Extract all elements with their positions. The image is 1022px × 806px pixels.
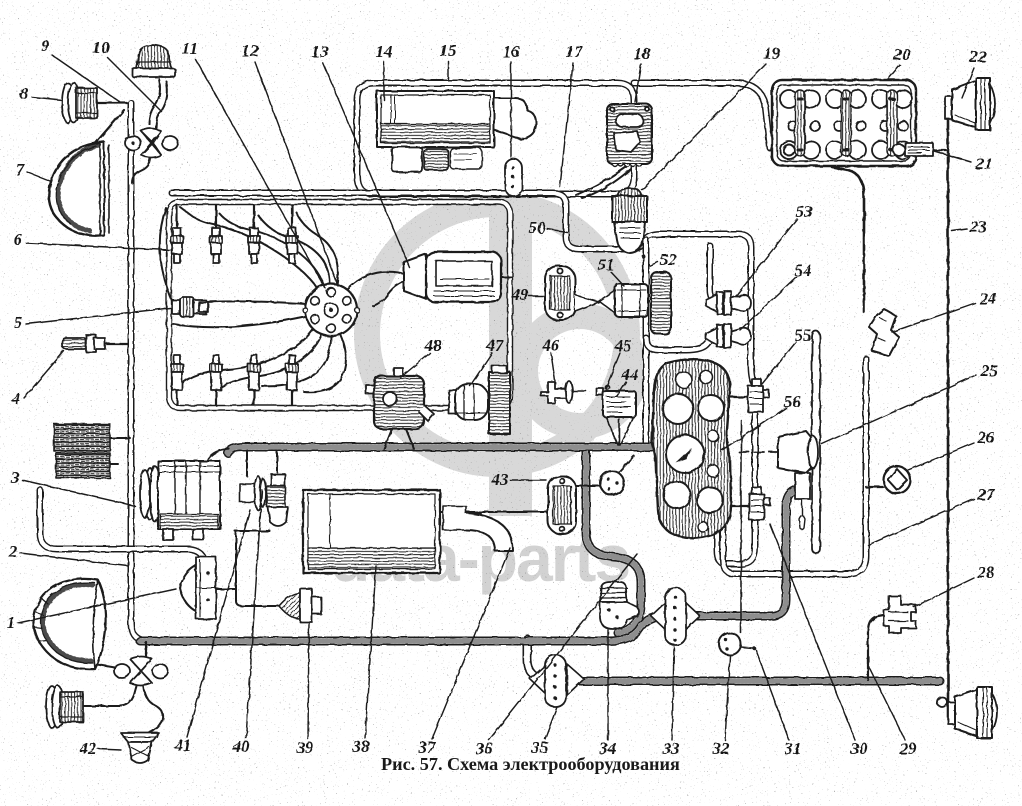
switch 46 bbox=[541, 381, 586, 403]
label 11 bbox=[182, 39, 325, 288]
svg-text:55: 55 bbox=[795, 326, 813, 345]
svg-text:12: 12 bbox=[242, 41, 260, 60]
label 39 bbox=[296, 622, 315, 757]
label 7 bbox=[16, 160, 50, 181]
svg-text:22: 22 bbox=[969, 47, 988, 66]
svg-text:29: 29 bbox=[899, 739, 918, 758]
svg-text:11: 11 bbox=[182, 39, 198, 58]
distributor 11 bbox=[303, 284, 360, 336]
label 1 bbox=[7, 589, 176, 632]
svg-text:Рис. 57. Схема электрооборудов: Рис. 57. Схема электрооборудования bbox=[381, 754, 680, 774]
heater 14-15 bbox=[377, 91, 536, 172]
motor 47 bbox=[449, 384, 488, 420]
wire 43 to lamp34 bbox=[576, 485, 601, 487]
lamp 22 bbox=[945, 78, 995, 130]
label 56 bbox=[722, 392, 801, 450]
wire 38 to 43 bbox=[440, 511, 548, 513]
svg-text:15: 15 bbox=[440, 41, 458, 60]
svg-text:10: 10 bbox=[93, 38, 111, 57]
lamp 19 bbox=[612, 188, 647, 253]
road drop at 527 bbox=[527, 639, 548, 680]
wire dashed steering axis bbox=[739, 451, 810, 453]
item 51 bbox=[599, 284, 648, 317]
label 50 bbox=[529, 218, 568, 237]
wire small circle bottom right bbox=[937, 697, 947, 707]
label 12 bbox=[242, 41, 339, 286]
wire plug stubs bottom row bbox=[176, 390, 178, 405]
svg-text:21: 21 bbox=[975, 154, 993, 173]
wire 40 columns bbox=[246, 451, 248, 476]
svg-text:19: 19 bbox=[764, 44, 782, 63]
svg-text:46: 46 bbox=[542, 336, 561, 355]
label 24 bbox=[892, 289, 997, 332]
wire generator to road bbox=[208, 449, 229, 459]
label 52 bbox=[649, 250, 677, 269]
spark plugs row 1 bbox=[171, 228, 298, 263]
bracket 9 bbox=[125, 129, 178, 158]
label 9 bbox=[41, 36, 120, 102]
svg-text:41: 41 bbox=[174, 736, 192, 755]
svg-text:48: 48 bbox=[424, 336, 443, 355]
wire filter loop pair bbox=[40, 490, 205, 561]
svg-text:13: 13 bbox=[312, 42, 330, 61]
switch 41a bbox=[267, 474, 288, 526]
label 31 bbox=[756, 650, 802, 758]
label 54 bbox=[740, 261, 812, 330]
svg-text:28: 28 bbox=[977, 563, 996, 582]
headlamp 7 bbox=[49, 142, 109, 236]
label 13 bbox=[312, 42, 411, 268]
label 21 bbox=[934, 151, 993, 173]
bracket bottom bbox=[114, 657, 168, 686]
label 26 bbox=[908, 428, 995, 470]
label 22 bbox=[962, 47, 987, 98]
svg-text:43: 43 bbox=[491, 470, 510, 489]
wire sensor 5 bbox=[160, 208, 173, 303]
tail lamp bbox=[46, 686, 83, 728]
label 4 bbox=[11, 351, 64, 408]
label 30 bbox=[770, 524, 868, 758]
label 14 bbox=[376, 42, 393, 100]
connector 21 bbox=[893, 143, 933, 156]
label 25 bbox=[822, 361, 998, 444]
wire lamp8 stub bbox=[97, 102, 128, 104]
svg-text:44: 44 bbox=[621, 365, 639, 384]
label 29 bbox=[869, 667, 917, 758]
wire 48 tassels bbox=[384, 429, 392, 449]
label 27 bbox=[868, 485, 996, 545]
label 23 bbox=[952, 217, 987, 236]
label 34 bbox=[599, 630, 617, 758]
plug 53 bbox=[706, 291, 751, 315]
label 2 bbox=[8, 542, 128, 566]
item 52 bbox=[641, 254, 671, 334]
wire 50 long pair bbox=[172, 193, 754, 383]
wire taillamp to bracket bbox=[83, 684, 137, 706]
svg-text:24: 24 bbox=[979, 289, 997, 308]
svg-text:8: 8 bbox=[20, 84, 29, 103]
svg-text:3: 3 bbox=[10, 468, 20, 487]
generator 2 bbox=[140, 461, 220, 540]
label 10 bbox=[93, 38, 163, 112]
connector 28 bbox=[884, 596, 916, 633]
road generator to panel bbox=[228, 447, 652, 453]
wire bottom bracket to road bbox=[145, 642, 147, 656]
funnel 42 bbox=[121, 733, 159, 763]
relay 18 bbox=[607, 104, 652, 167]
wire trunk left pair bbox=[131, 103, 149, 641]
wire coil to loop edge bbox=[501, 276, 512, 278]
wire 26 stub bbox=[866, 486, 883, 488]
svg-text:49: 49 bbox=[511, 285, 530, 304]
item 24 bbox=[869, 309, 899, 356]
wire 32 pull bbox=[740, 420, 742, 633]
svg-text:4: 4 bbox=[11, 389, 21, 408]
road steering to 33 bbox=[700, 490, 795, 616]
svg-text:50: 50 bbox=[529, 218, 547, 237]
switch 26 bbox=[884, 467, 911, 494]
svg-text:42: 42 bbox=[79, 739, 98, 758]
svg-text:26: 26 bbox=[977, 428, 996, 447]
svg-text:39: 39 bbox=[296, 738, 315, 757]
label 38 bbox=[352, 566, 377, 756]
svg-text:32: 32 bbox=[712, 739, 731, 758]
svg-text:17: 17 bbox=[566, 42, 585, 61]
label 40 bbox=[232, 490, 263, 756]
wire bracket to funnel 42 bbox=[143, 681, 163, 733]
spark plugs row 2 bbox=[171, 355, 298, 390]
watermark logo stem bar bbox=[489, 203, 532, 516]
svg-text:25: 25 bbox=[980, 361, 999, 380]
wire plug55 drop pair bbox=[717, 414, 755, 564]
lamp 8 bbox=[62, 83, 97, 123]
label 49 bbox=[511, 285, 545, 304]
label 47 bbox=[470, 336, 505, 386]
watermark logo small ring bbox=[525, 316, 635, 426]
label 44 bbox=[617, 365, 639, 396]
wire 28 stub bbox=[868, 614, 889, 680]
wire heater loop 15 bbox=[357, 83, 634, 194]
label 53 bbox=[736, 202, 813, 296]
wire panel to plug55 bbox=[731, 396, 748, 398]
label 55 bbox=[762, 326, 812, 384]
switch 32 bbox=[719, 633, 741, 655]
label 45 bbox=[606, 336, 632, 388]
svg-text:52: 52 bbox=[660, 250, 678, 269]
road bottom long bbox=[544, 677, 940, 686]
wire 40 bottom run bbox=[235, 530, 270, 532]
wire panel drop pair bbox=[643, 240, 650, 447]
label 3 bbox=[10, 468, 135, 506]
wire lamp22 right vertical bbox=[947, 120, 950, 719]
svg-text:53: 53 bbox=[796, 202, 814, 221]
oval 16 bbox=[505, 159, 522, 196]
label 51 bbox=[598, 255, 625, 286]
svg-text:1: 1 bbox=[7, 613, 16, 632]
label 42 bbox=[79, 739, 122, 758]
svg-text:45: 45 bbox=[614, 336, 633, 355]
svg-text:6: 6 bbox=[14, 230, 23, 249]
svg-text:31: 31 bbox=[784, 739, 802, 758]
road S drop center bbox=[586, 450, 641, 633]
svg-text:2: 2 bbox=[8, 542, 18, 561]
instrument panel 56 bbox=[652, 359, 731, 538]
road main bottom bbox=[140, 616, 700, 641]
label 36 bbox=[475, 554, 638, 758]
svg-text:18: 18 bbox=[634, 44, 652, 63]
wire parking lamp S bbox=[149, 79, 160, 124]
wire top pair to fuse block bbox=[634, 83, 770, 148]
label 32 bbox=[712, 656, 731, 758]
wire dome lamp stub bbox=[618, 456, 634, 473]
wire bracket to trunk bbox=[132, 157, 150, 183]
svg-text:51: 51 bbox=[598, 255, 615, 274]
switch 40 bbox=[240, 476, 266, 510]
label 46 bbox=[542, 336, 561, 381]
headlamp 1 bbox=[33, 579, 106, 669]
plug 54 bbox=[706, 324, 751, 348]
heater plug 43 bbox=[548, 476, 576, 534]
svg-text:20: 20 bbox=[893, 45, 912, 64]
fuse 4 bbox=[62, 335, 105, 352]
horn relay cap bbox=[180, 557, 216, 619]
svg-text:38: 38 bbox=[352, 737, 371, 756]
label 28 bbox=[914, 563, 995, 607]
svg-text:16: 16 bbox=[503, 42, 521, 61]
label 17 bbox=[560, 42, 584, 187]
wire 24 to fuse block bbox=[832, 167, 864, 312]
svg-text:30: 30 bbox=[850, 739, 869, 758]
wire coil nose lead bbox=[373, 279, 411, 306]
label 48 bbox=[400, 336, 442, 378]
filter 3 bbox=[54, 424, 110, 478]
lower plug 30 bbox=[749, 487, 770, 520]
label 37 bbox=[418, 548, 511, 757]
svg-text:14: 14 bbox=[376, 42, 393, 61]
wire fuse 4 stub bbox=[105, 343, 128, 345]
ignition coil 13 bbox=[404, 252, 501, 302]
wire drop to plug 53 bbox=[710, 246, 715, 301]
svg-text:27: 27 bbox=[977, 485, 997, 504]
label 18 bbox=[634, 44, 652, 102]
sensor 35 bbox=[530, 655, 584, 707]
label 41 bbox=[174, 510, 251, 755]
lamp 29 bbox=[948, 687, 997, 738]
watermark logo big ring bbox=[330, 203, 635, 595]
label 15 bbox=[440, 41, 458, 79]
svg-text:9: 9 bbox=[41, 36, 50, 55]
regulator 49 bbox=[545, 266, 599, 320]
regulator 48 bbox=[366, 368, 434, 429]
heater box 38 bbox=[303, 490, 513, 573]
relay 44 bbox=[596, 385, 636, 445]
wire to plugs 53-54 pair bbox=[646, 338, 712, 350]
steering column 25 bbox=[778, 331, 820, 553]
label 35 bbox=[531, 707, 558, 757]
wire dist leads bbox=[180, 207, 318, 289]
wire headlamp1 to bracket bbox=[82, 662, 118, 668]
wire relay 18 drop bbox=[576, 167, 626, 195]
dome lamp 34c bbox=[600, 471, 624, 495]
resistor 47b bbox=[489, 366, 510, 434]
svg-text:5: 5 bbox=[14, 313, 23, 332]
lamp 34 bbox=[600, 582, 639, 629]
label 5 bbox=[14, 308, 170, 332]
svg-text:54: 54 bbox=[795, 261, 812, 280]
label 16 bbox=[503, 42, 521, 157]
sensor 5 bbox=[172, 297, 208, 317]
wire 21 stub bbox=[934, 149, 946, 151]
svg-text:23: 23 bbox=[969, 217, 988, 236]
svg-text:47: 47 bbox=[486, 336, 506, 355]
label 19 bbox=[642, 44, 781, 190]
label 6 bbox=[14, 230, 170, 250]
sensor 39 bbox=[279, 589, 321, 622]
label 43 bbox=[491, 470, 547, 489]
plug 55 bbox=[748, 379, 769, 412]
lamp 10 parking bbox=[132, 45, 175, 77]
wire horn to 39 bbox=[214, 588, 236, 590]
wire filter stubs bbox=[110, 437, 130, 439]
label 20 bbox=[888, 45, 911, 79]
wire headlamp7 diagonal bbox=[86, 110, 124, 154]
svg-text:40: 40 bbox=[232, 737, 251, 756]
fuse block 20 bbox=[772, 80, 916, 166]
wire panel to lower plug bbox=[729, 505, 750, 507]
label 33 bbox=[662, 647, 681, 758]
wire plug stubs top row bbox=[176, 205, 178, 228]
wire 27 loop pair bbox=[723, 359, 866, 574]
label 8 bbox=[20, 84, 62, 103]
wire spark loop bbox=[169, 202, 510, 408]
switch 33 bbox=[651, 588, 700, 645]
